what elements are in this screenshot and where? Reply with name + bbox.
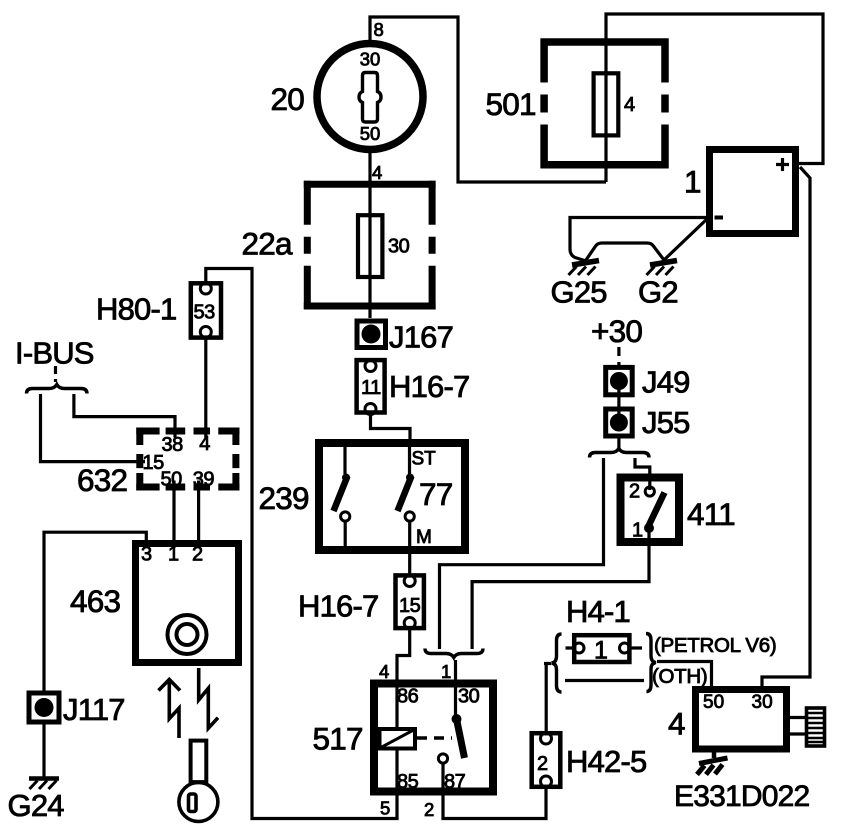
fuse element 501 xyxy=(594,73,619,135)
key symbol xyxy=(179,741,218,822)
svg-text:(OTH): (OTH) xyxy=(652,665,707,688)
lock unit 463 box xyxy=(136,544,239,663)
fuse element 22a xyxy=(358,215,382,277)
I-BUS dashed stub xyxy=(54,366,57,382)
svg-text:50: 50 xyxy=(161,469,183,491)
wire through fuse 501 from battery plus rail xyxy=(606,14,823,182)
wire: 411 pin 1 to relay brace right xyxy=(472,530,649,649)
arrow with break left xyxy=(159,680,181,739)
wire: H4-1 brace to starter 50 xyxy=(657,662,712,689)
wire: 632 pin 39 to 463 pin 2 xyxy=(197,481,200,549)
wire: J49 to J55 xyxy=(617,381,620,422)
wire: H16-7 to switch 239 terminal ST xyxy=(371,414,411,444)
wire: terminal 8 to node over fuse 501 xyxy=(370,17,606,182)
svg-text:2: 2 xyxy=(629,481,640,503)
463 lock cylinder double circle xyxy=(168,615,207,654)
wire: J117 to ground G24 xyxy=(42,725,45,779)
svg-text:G25: G25 xyxy=(551,275,607,310)
connector H42-5 pin 2 xyxy=(532,733,561,787)
relay 517 coil xyxy=(206,269,415,819)
svg-text:1: 1 xyxy=(594,637,608,665)
svg-text:39: 39 xyxy=(193,469,215,491)
battery 1 xyxy=(710,150,796,234)
svg-text:77: 77 xyxy=(419,476,452,512)
svg-text:501: 501 xyxy=(486,86,536,122)
H4-1 connector pin 1 xyxy=(566,635,643,662)
H4-1 left big brace xyxy=(552,634,562,692)
svg-text:2: 2 xyxy=(424,799,434,820)
svg-text:20: 20 xyxy=(271,81,305,117)
svg-text:4: 4 xyxy=(668,706,685,742)
svg-text:2: 2 xyxy=(537,753,548,775)
switch unit 239 box xyxy=(319,443,465,550)
fuse box 22a dashed border xyxy=(304,181,436,310)
OTH alternative wire xyxy=(565,679,644,682)
svg-text:ST: ST xyxy=(412,449,437,470)
svg-text:30: 30 xyxy=(360,49,381,70)
svg-text:H4-1: H4-1 xyxy=(566,594,630,629)
wire: I-BUS left to 632 pin 15 xyxy=(41,394,146,462)
svg-text:53: 53 xyxy=(194,302,216,324)
junction J167 xyxy=(357,321,386,348)
fuse box 501 dashed border xyxy=(541,39,669,169)
+30 dashed stub xyxy=(617,347,620,366)
svg-text:239: 239 xyxy=(259,480,309,516)
connector H80-1 pin 53 xyxy=(191,283,221,338)
svg-text:I-BUS: I-BUS xyxy=(15,336,94,371)
svg-text:4: 4 xyxy=(624,94,635,116)
svg-text:G2: G2 xyxy=(638,275,678,310)
svg-text:M: M xyxy=(416,527,432,548)
svg-text:4: 4 xyxy=(372,162,382,183)
starter ground xyxy=(697,752,728,775)
svg-text:H16-7: H16-7 xyxy=(389,369,469,404)
ignition switch 20 circle xyxy=(317,44,423,150)
svg-text:G24: G24 xyxy=(8,788,65,823)
relay 517 box xyxy=(374,684,493,792)
starter pinion xyxy=(807,708,825,746)
connector H16-7 pin 11 xyxy=(357,360,385,414)
H4-1 right big brace xyxy=(646,634,656,692)
starter shaft lines xyxy=(790,718,807,735)
control module 632 dashed box xyxy=(136,428,239,491)
wire: 632 pin 50 to 463 pin 1 xyxy=(172,481,175,549)
I-BUS brace xyxy=(27,385,88,394)
svg-text:87: 87 xyxy=(444,771,466,793)
wire: J55 to brace xyxy=(617,439,620,451)
svg-text:E331D022: E331D022 xyxy=(674,780,809,813)
svg-text:30: 30 xyxy=(458,686,480,708)
connector H16-7 pin 15 xyxy=(396,575,424,628)
wire: brace right to 411 pin 2 xyxy=(635,458,650,490)
switch 411 contact xyxy=(644,487,665,533)
svg-text:38: 38 xyxy=(162,434,184,456)
ground selection bracket G25/G2 xyxy=(586,243,664,260)
svg-text:+30: +30 xyxy=(591,313,642,349)
relay 517 coil to blade dashed link xyxy=(417,736,452,739)
starter motor 4 box xyxy=(696,690,787,750)
svg-text:J167: J167 xyxy=(389,320,453,355)
ground G24 xyxy=(29,779,59,790)
svg-text:411: 411 xyxy=(687,496,735,532)
svg-text:50: 50 xyxy=(360,123,381,144)
svg-text:(PETROL V6): (PETROL V6) xyxy=(654,634,776,657)
svg-text:85: 85 xyxy=(397,771,419,793)
svg-text:J49: J49 xyxy=(642,365,690,400)
svg-text:8: 8 xyxy=(374,19,384,40)
switch 411 box xyxy=(621,478,680,543)
squiggle line right xyxy=(199,668,218,728)
wire: battery minus diagonal to ground G2 xyxy=(664,219,707,260)
wire: J117 to 463 pin 3 xyxy=(44,532,146,691)
svg-text:22a: 22a xyxy=(242,226,293,262)
svg-text:J55: J55 xyxy=(642,405,690,440)
svg-text:1: 1 xyxy=(441,661,451,682)
svg-text:50: 50 xyxy=(703,692,724,713)
svg-text:30: 30 xyxy=(752,692,773,713)
junction J55 xyxy=(606,409,633,436)
wire through fuse 22a xyxy=(368,181,371,318)
battery plus sign xyxy=(776,158,789,171)
svg-text:H16-7: H16-7 xyxy=(298,589,378,624)
wire: brace left to relay brace left xyxy=(440,458,604,649)
wire: H16-7 pin 15 to relay 517 pin 4 xyxy=(397,628,410,680)
wire: battery plus to starter 30 down right side xyxy=(762,167,810,688)
wire: switch 20 to fuse box 22a, pin 4 xyxy=(368,150,371,182)
wire: H80-1 bottom to 632 pin 4 xyxy=(204,339,207,438)
svg-text:517: 517 xyxy=(313,721,363,757)
ground G25 xyxy=(569,261,600,276)
relay 517 switch xyxy=(438,660,546,819)
svg-text:463: 463 xyxy=(70,583,120,619)
junction J117 xyxy=(29,693,59,722)
svg-text:632: 632 xyxy=(77,462,127,498)
battery minus sign xyxy=(715,216,724,220)
wire: battery minus to ground bracket xyxy=(570,218,706,262)
svg-text:86: 86 xyxy=(397,686,419,708)
svg-text:15: 15 xyxy=(399,595,421,617)
svg-text:30: 30 xyxy=(388,236,410,258)
ignition switch key symbol xyxy=(359,73,381,123)
svg-text:4: 4 xyxy=(379,661,389,682)
svg-text:J117: J117 xyxy=(63,692,125,727)
brace merging wires into relay pin 1 xyxy=(425,649,483,658)
svg-text:H80-1: H80-1 xyxy=(96,292,176,327)
brace splitting from J55 xyxy=(590,449,650,458)
svg-text:1: 1 xyxy=(632,520,643,542)
svg-text:H42-5: H42-5 xyxy=(566,744,646,779)
svg-text:5: 5 xyxy=(380,798,390,819)
ground G2 xyxy=(647,261,678,276)
wire: I-BUS right to 632 pin 38 xyxy=(74,394,175,438)
wire: 239 terminal M to connector H16-7 pin 15 xyxy=(408,522,411,576)
svg-text:1: 1 xyxy=(684,164,701,200)
wire: H4-1 brace to H42-5 xyxy=(544,664,551,732)
svg-text:11: 11 xyxy=(361,377,381,399)
switch 239 ST contact xyxy=(398,447,415,521)
switch 239 left contact xyxy=(334,447,351,550)
junction J49 xyxy=(606,367,633,394)
